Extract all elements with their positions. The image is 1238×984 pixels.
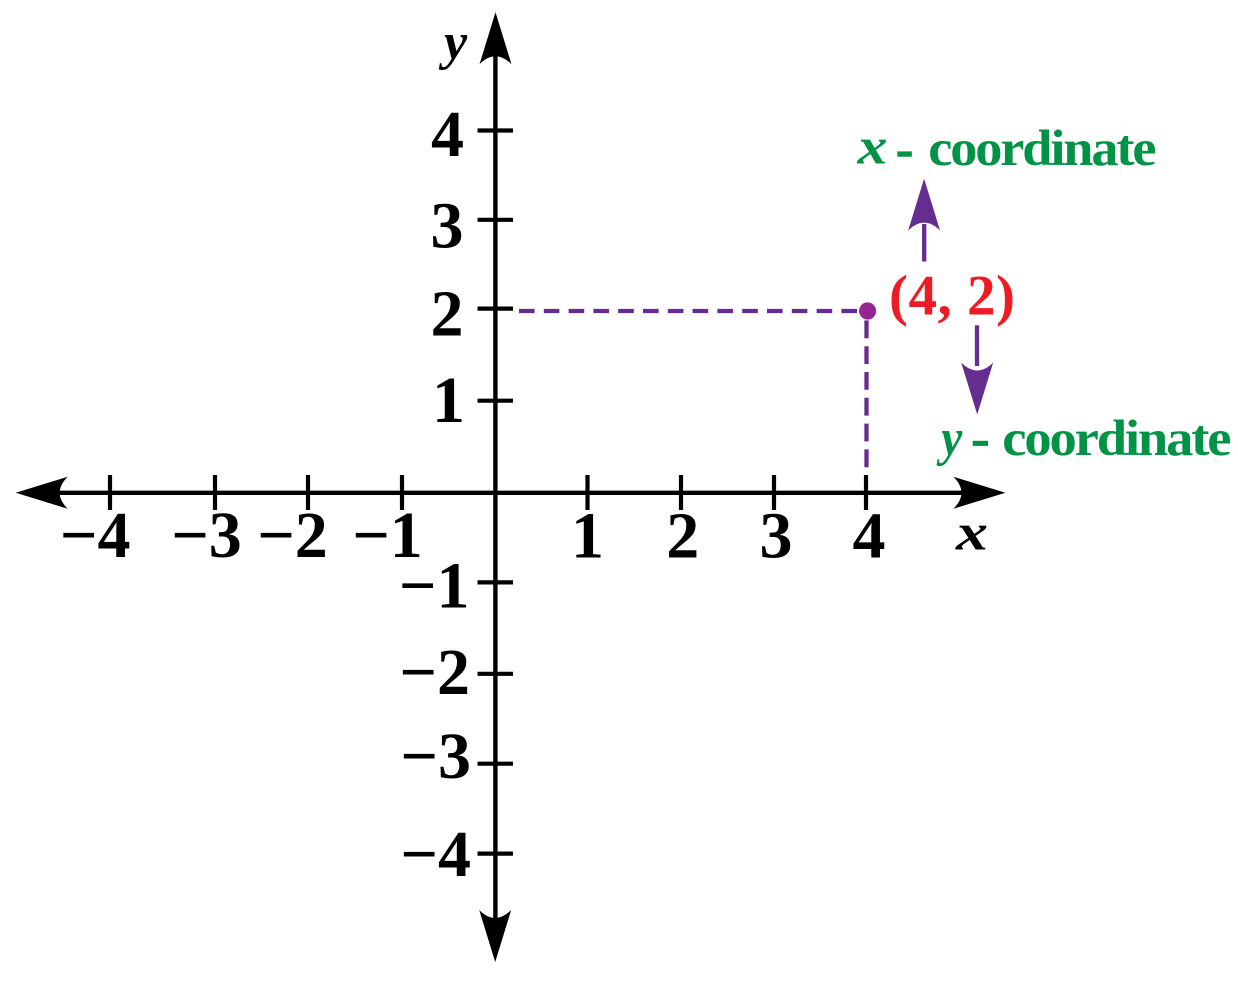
y axis tick 4	[478, 128, 514, 132]
svg-text:x: x	[955, 505, 988, 562]
svg-text:1: 1	[571, 500, 604, 573]
purple down arrow shaft	[975, 325, 979, 366]
x axis tick 1	[585, 475, 589, 510]
svg-text:3: 3	[760, 500, 793, 573]
dashed vertical line from point (4,2) to x axis	[864, 320, 868, 467]
y axis tick -4	[478, 851, 514, 855]
y axis tick 3	[478, 218, 514, 222]
x axis tick 3	[772, 475, 776, 510]
x axis tick -4	[108, 475, 112, 510]
svg-text:−1: −1	[399, 549, 470, 622]
svg-text:3: 3	[431, 190, 464, 263]
purple up arrowhead	[908, 179, 940, 231]
svg-text:−4: −4	[400, 818, 471, 891]
y axis tick 1	[478, 399, 514, 403]
svg-text:4: 4	[853, 500, 886, 573]
green label hyphen for x - coordinate	[897, 151, 912, 156]
green label hyphen for y - coordinate	[973, 441, 988, 446]
purple up arrow shaft	[922, 224, 926, 262]
x axis tick 2	[679, 475, 683, 510]
x axis tick -2	[306, 475, 310, 510]
y axis tick -2	[478, 672, 514, 676]
point (4,2) dot	[859, 302, 876, 319]
x axis left arrowhead	[16, 477, 68, 509]
svg-text:−2: −2	[399, 636, 470, 709]
x axis tick -1	[400, 475, 404, 510]
svg-text:−3: −3	[171, 499, 242, 572]
svg-text:4: 4	[431, 98, 464, 171]
y axis top arrowhead	[480, 12, 512, 64]
svg-text:coordinate: coordinate	[928, 120, 1156, 176]
svg-text:1: 1	[432, 364, 465, 437]
svg-text:(4, 2): (4, 2)	[889, 265, 1015, 328]
svg-text:−2: −2	[257, 499, 328, 572]
x axis tick -3	[213, 475, 217, 510]
x axis tick 4	[864, 475, 868, 510]
svg-text:coordinate: coordinate	[1002, 410, 1231, 466]
x axis line	[38, 491, 968, 495]
svg-text:−3: −3	[400, 720, 471, 793]
x axis right arrowhead	[953, 477, 1005, 509]
dashed horizontal line from y axis to point (4,2)	[519, 309, 858, 313]
y axis bottom arrowhead	[479, 910, 511, 962]
svg-text:x: x	[856, 119, 887, 176]
y axis tick -3	[478, 762, 514, 766]
svg-text:2: 2	[666, 500, 699, 573]
svg-text:2: 2	[431, 278, 464, 351]
y axis line	[493, 40, 497, 935]
y axis tick -1	[478, 580, 514, 584]
svg-text:−4: −4	[60, 499, 131, 572]
y axis tick 2	[478, 307, 514, 311]
purple down arrowhead	[961, 363, 993, 415]
